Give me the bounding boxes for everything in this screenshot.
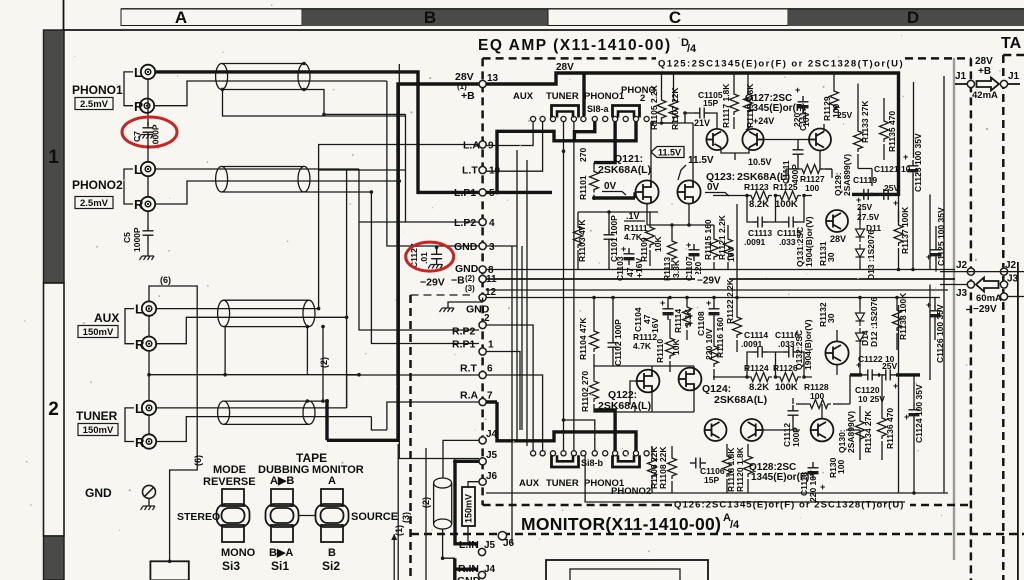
jack PHONO1 L <box>141 65 155 79</box>
resistors R1118 R1120 1.8K <box>723 453 732 477</box>
terminal J1 pair <box>967 80 974 87</box>
svg-text:Si2: Si2 <box>322 559 340 573</box>
svg-text:R1102 270: R1102 270 <box>580 371 590 412</box>
svg-text:L.IN: L.IN <box>459 539 479 551</box>
svg-text:.0091: .0091 <box>744 237 766 247</box>
bjt Q132 <box>825 341 848 364</box>
rail junction dots lower channel <box>592 296 596 300</box>
svg-text:Si3: Si3 <box>222 559 240 573</box>
GND stub near 12 <box>448 298 483 309</box>
switch Si8-a contacts <box>531 116 650 121</box>
svg-text:R1108 22K: R1108 22K <box>658 446 668 489</box>
svg-text:(6): (6) <box>193 455 203 466</box>
thick staircase L.P1 to switch <box>486 122 636 193</box>
svg-text:AUX: AUX <box>513 91 534 102</box>
svg-text:10K: 10K <box>671 339 681 355</box>
svg-text:SI8-a: SI8-a <box>587 104 610 114</box>
svg-text:+B: +B <box>461 90 475 102</box>
svg-text:SOURCE: SOURCE <box>351 511 398 523</box>
svg-text:(3): (3) <box>465 284 475 293</box>
wire L.T long <box>319 169 347 171</box>
svg-text:R1135 470: R1135 470 <box>887 111 897 152</box>
svg-text:Q126:2SC1345(E)or(F) or 2SC132: Q126:2SC1345(E)or(F) or 2SC1328(T)or(U) <box>674 500 904 511</box>
drain wires <box>650 123 652 181</box>
svg-text:(3): (3) <box>401 512 411 523</box>
label 2.5mV box <box>75 98 113 110</box>
svg-text:+16V: +16V <box>634 258 644 278</box>
svg-text:11.5V: 11.5V <box>658 148 681 158</box>
fet Q121 <box>635 180 658 203</box>
resistors R1106 R1108 22K <box>648 455 657 479</box>
svg-text:/4: /4 <box>687 43 697 55</box>
resistor R1137 100K <box>894 222 903 246</box>
svg-text:R1110: R1110 <box>655 339 665 363</box>
wire R to C5 <box>147 211 149 225</box>
ground hatch below screw <box>141 506 156 510</box>
terminal 12 <box>479 294 486 301</box>
wire AUX junction row <box>149 374 359 376</box>
svg-text:100K: 100K <box>775 199 798 210</box>
sheet top border <box>62 29 1024 31</box>
wire C5 to ground <box>147 241 149 256</box>
svg-text:C1102 100P: C1102 100P <box>613 319 623 366</box>
grey scan artifact line <box>953 58 955 560</box>
svg-text:L.P1: L.P1 <box>454 187 476 199</box>
wire tube down <box>443 529 455 558</box>
thick wire R.IN <box>455 558 478 580</box>
svg-text:2: 2 <box>48 399 59 420</box>
svg-text:1904(B)or(V): 1904(B)or(V) <box>804 216 814 267</box>
svg-text:B▶A: B▶A <box>269 547 293 559</box>
jack TUNER R <box>142 434 156 448</box>
wire phono1 shield drop <box>223 89 406 116</box>
capacitor C1101 100P <box>604 229 615 245</box>
wire col to R.T <box>347 375 479 430</box>
svg-text:(2): (2) <box>421 497 431 508</box>
ground below C7 <box>139 135 154 139</box>
bracket AUX LR <box>125 309 134 344</box>
jack PHONO2 L <box>141 162 155 176</box>
svg-text:B: B <box>424 8 436 27</box>
wire aux tube bottom drop <box>224 327 226 375</box>
gnd screw symbol <box>143 485 156 498</box>
wire jacks vertical <box>147 79 149 125</box>
wire PHONO2 R <box>155 181 399 204</box>
wire col to R.A <box>387 402 479 430</box>
svg-text:+: + <box>903 152 908 162</box>
wire col to R.P2 <box>359 169 479 330</box>
svg-text:+: + <box>660 298 665 308</box>
wire TUNER L <box>156 407 347 409</box>
svg-text:R.P1: R.P1 <box>452 339 476 351</box>
wire PHONO1 L thick <box>155 72 479 192</box>
wire PHONO2 L <box>155 168 359 170</box>
wire C7 to PHONO2 <box>147 138 149 162</box>
svg-text:L.T: L.T <box>462 165 478 177</box>
svg-text:+: + <box>621 244 626 254</box>
drain wires lower <box>651 366 653 370</box>
svg-text:R1136 470: R1136 470 <box>885 408 895 449</box>
row band 1 (dark) <box>44 30 65 283</box>
red ellipse around C1127 <box>406 242 454 271</box>
svg-text:A: A <box>328 475 336 487</box>
wires contacts to terminals lower <box>486 325 533 451</box>
svg-text:J3: J3 <box>956 288 968 299</box>
svg-text:+: + <box>795 85 800 95</box>
svg-text:Si8-b: Si8-b <box>581 458 604 468</box>
svg-text:MODE: MODE <box>213 464 246 476</box>
svg-text:2.5mV: 2.5mV <box>80 198 109 209</box>
ground below C5 <box>140 256 155 260</box>
more mesh verticals <box>512 160 527 544</box>
junction dots mesh <box>345 316 349 320</box>
cable tube AUX <box>218 300 315 326</box>
svg-text:J5: J5 <box>484 540 496 551</box>
thick 28V rail <box>486 73 899 194</box>
label -29V mid <box>695 274 729 285</box>
svg-text:MONO: MONO <box>221 547 256 559</box>
wire col mid3 <box>406 114 480 222</box>
svg-text:28V: 28V <box>830 234 846 244</box>
svg-text:2: 2 <box>640 93 645 104</box>
wire tuner tube shield <box>307 327 323 402</box>
diode D12 <box>856 328 865 346</box>
bjt Q128 <box>741 419 763 441</box>
svg-text:R1133 27K: R1133 27K <box>860 100 870 143</box>
svg-text:L.A: L.A <box>463 140 480 152</box>
svg-text:J1: J1 <box>1008 71 1020 82</box>
label -29V right <box>966 309 971 311</box>
cable tube TUNER <box>218 401 315 424</box>
resistor R1122 2.2K <box>733 314 742 338</box>
electrolytic C1123 100 35V <box>908 160 919 177</box>
svg-text:4: 4 <box>489 218 495 229</box>
bjt Q126 <box>705 419 727 441</box>
svg-text:25V: 25V <box>884 183 899 193</box>
svg-text:TUNER: TUNER <box>546 478 579 489</box>
component box bottom left <box>150 561 188 580</box>
svg-text:TA: TA <box>1001 35 1022 52</box>
svg-text:0V: 0V <box>604 181 617 192</box>
right column verticals <box>899 76 945 493</box>
resistor R1104 47K <box>590 328 599 352</box>
resistor R1110 10K <box>666 335 675 359</box>
electrolytic C1125 100 35V <box>931 244 942 261</box>
wire TUNER L-R <box>148 415 150 435</box>
svg-text:A: A <box>175 8 187 27</box>
svg-text:PHONO1: PHONO1 <box>584 91 625 102</box>
resistor R1119 1.8K <box>747 73 749 92</box>
wire AUX R down to TUNER L <box>148 351 150 402</box>
wire (6) <box>149 286 197 561</box>
terminal 3 <box>479 242 486 249</box>
resistor R1134 27K <box>856 418 865 442</box>
wire AUX R <box>156 317 347 343</box>
svg-text:42mA: 42mA <box>972 90 998 101</box>
dashed heavy line under monitor title <box>411 533 1024 536</box>
svg-text:270: 270 <box>578 148 588 162</box>
svg-text:/4: /4 <box>730 519 740 531</box>
electrolytic C1126 100 35V <box>930 305 941 322</box>
capacitor C1102 100P <box>608 337 619 353</box>
terminal 1 <box>479 348 486 355</box>
svg-text:C1101 100P: C1101 100P <box>609 215 619 262</box>
resistor R1107 22K <box>673 73 675 97</box>
extra connection wires upper right <box>764 124 873 194</box>
terminal 4 <box>479 218 486 225</box>
svg-text:J6: J6 <box>486 471 498 482</box>
node wire <box>713 195 812 197</box>
terminal 2 <box>479 321 486 328</box>
Si8-a bracket 2 <box>613 106 640 118</box>
resistor R1135 470 <box>880 118 889 142</box>
label 11.5V pointer box <box>651 147 684 158</box>
resistor R1105 2.2K <box>661 73 663 97</box>
svg-text:J2: J2 <box>956 260 968 271</box>
cable tube PHONO1 <box>216 64 310 90</box>
dashed bottom edge of EQ box <box>483 504 672 507</box>
svg-text:100K: 100K <box>775 382 798 393</box>
terminal J4 <box>479 437 486 444</box>
svg-text:R1119 1.8K: R1119 1.8K <box>745 83 755 128</box>
fet Q124 <box>679 368 702 391</box>
svg-text:2SK68A(L): 2SK68A(L) <box>598 164 651 176</box>
svg-text:30: 30 <box>826 252 836 262</box>
wire (1) vertical <box>397 444 399 580</box>
svg-text:D13 :1S2076: D13 :1S2076 <box>866 230 876 280</box>
Si8-b bracket 2 <box>613 455 640 467</box>
svg-text:TAPE: TAPE <box>296 451 327 465</box>
output caps C1122 C1120 <box>862 369 878 380</box>
rail GND 8 <box>486 269 955 271</box>
dashed monitor box left edge <box>409 295 412 580</box>
svg-text:3.3K: 3.3K <box>671 259 681 278</box>
switch Si3 <box>217 489 250 542</box>
diode D13 <box>856 244 865 262</box>
svg-text:+24V: +24V <box>753 116 774 126</box>
resistor R1136 470 <box>878 415 887 439</box>
bjt Q131 <box>826 210 848 232</box>
terminal R.IN <box>478 571 485 578</box>
resistor R1116 160 <box>710 343 719 367</box>
capacitor C1112 100P <box>788 405 799 421</box>
terminal 11 <box>479 275 486 282</box>
svg-text:25V: 25V <box>882 361 897 371</box>
rail 11 -29V <box>486 278 955 280</box>
thick feed to Si8-a <box>582 73 585 116</box>
solid border right <box>1017 262 1019 580</box>
bjt Q127 <box>809 129 831 151</box>
svg-text:60mA: 60mA <box>976 293 1002 304</box>
extra connection wires lower right <box>765 330 882 444</box>
node wire lower <box>713 376 812 378</box>
svg-text:150mV: 150mV <box>83 425 114 436</box>
label 150mV rotated box <box>462 487 475 526</box>
wire J4 to tube <box>443 440 479 478</box>
svg-text:STEREO: STEREO <box>177 511 220 523</box>
thick gate wire to Q121 <box>594 192 635 198</box>
svg-text:PHONO1: PHONO1 <box>72 83 123 97</box>
jack AUX L <box>142 301 156 315</box>
resistor R1101 270 <box>593 163 595 169</box>
svg-text:−29V: −29V <box>973 304 997 315</box>
svg-text:+: + <box>706 298 711 308</box>
resistor R1127 100 <box>799 165 823 174</box>
dashed board edge 2 (tape) <box>1002 55 1005 580</box>
electrolytic C1103 47 <box>624 248 635 265</box>
thick contact9 to R1101 <box>594 122 615 163</box>
svg-text:150mV: 150mV <box>83 327 114 338</box>
svg-text:GND: GND <box>457 575 481 580</box>
svg-text:6: 6 <box>487 364 493 375</box>
wire contact7 thick step <box>574 122 594 141</box>
svg-text:21V: 21V <box>694 118 710 128</box>
svg-text:C1123 100 35V: C1123 100 35V <box>913 133 923 192</box>
capacitor C1106 15P <box>690 458 706 469</box>
monitor sub box bottom <box>546 560 708 580</box>
svg-text:100: 100 <box>805 183 819 193</box>
svg-text:B: B <box>328 547 336 559</box>
diode D11 <box>856 224 865 242</box>
source wires Q121/Q123 down <box>647 203 714 230</box>
svg-text:C1103: C1103 <box>615 256 625 281</box>
svg-text:REVERSE: REVERSE <box>203 476 256 488</box>
svg-text:(2): (2) <box>319 357 329 368</box>
dashed board edge 1 <box>970 58 973 580</box>
svg-text:MONITOR(X11-1410-00): MONITOR(X11-1410-00) <box>521 514 721 534</box>
column header D (dark) <box>788 10 1024 27</box>
bjt Q125 pair <box>742 129 763 150</box>
svg-text:AUX: AUX <box>519 478 540 489</box>
capacitor C1127 .01 with red ellipse <box>409 243 443 268</box>
svg-text:D12 :1S2076: D12 :1S2076 <box>869 297 879 347</box>
wire col AUX L to L.A <box>319 145 479 309</box>
svg-text:11.5V: 11.5V <box>688 155 714 166</box>
electrolytic C1104 47 <box>663 303 674 320</box>
svg-text:C5: C5 <box>122 232 132 243</box>
label 150mV box <box>78 424 118 436</box>
wire to L.P2 <box>359 221 406 223</box>
svg-text:C1119: C1119 <box>853 175 877 185</box>
wire PHONO1 R <box>154 81 387 106</box>
wire with arrowhead left of (1) <box>393 534 395 580</box>
column header A (white) <box>121 9 302 26</box>
bjt Q125 <box>706 129 727 150</box>
terminal J6 <box>479 478 486 485</box>
capacitor C5 1000P <box>143 225 154 241</box>
arrow right J1 <box>977 78 1000 91</box>
bracket PHONO1 LR <box>124 72 133 106</box>
Si8-b bracket 1 <box>552 455 579 467</box>
svg-text:R.IN: R.IN <box>458 563 479 575</box>
svg-text:2SA899(V): 2SA899(V) <box>842 154 852 196</box>
svg-text:1: 1 <box>488 340 494 351</box>
svg-text:PHONO2: PHONO2 <box>611 486 651 497</box>
electrolytic C1118 220 10V <box>808 462 819 479</box>
caps C1113 C1115 <box>752 217 768 228</box>
rail 12 <box>486 289 948 291</box>
terminal 10 <box>479 166 486 173</box>
svg-text:R1101: R1101 <box>578 175 588 200</box>
svg-text:.0091: .0091 <box>741 339 763 349</box>
svg-text:10 25V: 10 25V <box>858 394 885 404</box>
svg-text:220 10V: 220 10V <box>808 470 818 502</box>
svg-text:C: C <box>669 8 681 27</box>
resistor R1103 47K <box>574 224 583 248</box>
resistor R1129 100 <box>830 88 839 112</box>
svg-text:GND: GND <box>85 486 112 500</box>
wire (2) vertical <box>425 448 427 580</box>
resistor R1117 1.8K <box>733 73 735 92</box>
capacitor C7 1000P <box>143 122 154 138</box>
svg-text:C1124 100 35V: C1124 100 35V <box>914 384 924 443</box>
svg-text:R1116 160: R1116 160 <box>715 317 725 358</box>
svg-text:Si1: Si1 <box>271 559 289 573</box>
thick contact9b to R1102 <box>594 410 615 451</box>
svg-text:D: D <box>907 8 919 27</box>
svg-text:8.2K: 8.2K <box>749 382 769 393</box>
svg-text:R1117 1.8K: R1117 1.8K <box>721 83 731 128</box>
wire TUNER R <box>156 417 372 442</box>
dashed top edge <box>483 57 656 60</box>
column header B (dark) <box>302 10 548 27</box>
svg-text:R1120 1.8K: R1120 1.8K <box>735 446 745 492</box>
svg-text:25V: 25V <box>837 110 852 120</box>
svg-text:J5: J5 <box>486 450 498 461</box>
wire col mid1 <box>387 81 479 246</box>
junction dots <box>495 190 499 194</box>
svg-text:150mV: 150mV <box>464 494 474 523</box>
wire AUX L-R <box>148 315 150 337</box>
svg-text:10V: 10V <box>726 247 736 262</box>
terminal L.IN <box>478 548 485 555</box>
rail extra <box>486 297 940 299</box>
svg-text:7: 7 <box>487 391 493 402</box>
svg-text:2SK68A(L): 2SK68A(L) <box>714 394 767 406</box>
fet Q123 <box>677 180 700 203</box>
svg-text:A▶B: A▶B <box>270 475 294 487</box>
lower bottom rail <box>486 492 948 494</box>
jack PHONO1 R <box>140 99 154 113</box>
resistor R1114 3.3K <box>683 304 692 328</box>
wire from tube1 end to L.T <box>304 90 406 115</box>
jack TUNER L <box>142 401 156 415</box>
vertical cable tube near monitor <box>434 478 452 529</box>
svg-text:R1103 47K: R1103 47K <box>577 219 587 262</box>
svg-text:220 10V: 220 10V <box>704 328 714 360</box>
svg-text:2.5mV: 2.5mV <box>80 99 109 110</box>
svg-text:3.3K: 3.3K <box>683 308 693 327</box>
svg-text:.01: .01 <box>419 252 429 264</box>
thick gate wire Q122 <box>594 381 637 412</box>
resistor R1113 3.3K <box>668 238 677 262</box>
wire contact2 to L.T <box>486 122 543 172</box>
dashed left edge <box>481 58 484 505</box>
svg-text:C1121 10: C1121 10 <box>874 164 911 174</box>
svg-text:EQ AMP (X11-1410-00): EQ AMP (X11-1410-00) <box>478 37 672 54</box>
svg-text:PHONO2: PHONO2 <box>72 178 123 192</box>
terminal J5 <box>479 458 486 465</box>
svg-text:1: 1 <box>48 147 59 168</box>
bracket PHONO2 LR <box>124 169 133 204</box>
svg-text:.033: .033 <box>778 339 795 349</box>
svg-text:R.A: R.A <box>460 390 479 402</box>
svg-text:10.5V: 10.5V <box>748 157 772 167</box>
node wire y212 <box>578 211 658 213</box>
svg-text:−B: −B <box>451 275 465 287</box>
svg-text:R.T: R.T <box>460 363 478 375</box>
jack PHONO2 R <box>141 197 155 211</box>
